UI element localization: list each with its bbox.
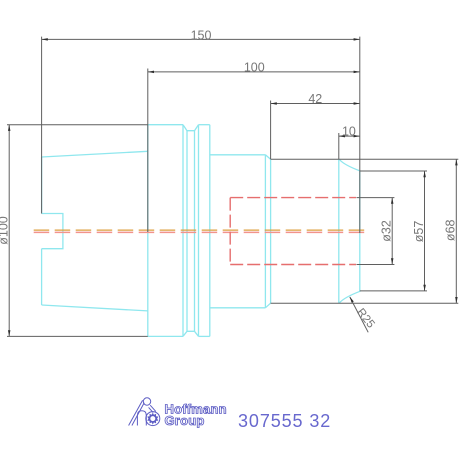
svg-text:ø100: ø100 <box>0 216 11 245</box>
svg-text:10: 10 <box>342 125 356 139</box>
svg-text:307555 32: 307555 32 <box>238 411 331 431</box>
svg-text:150: 150 <box>191 28 212 42</box>
svg-text:ø68: ø68 <box>444 219 458 241</box>
svg-text:Group: Group <box>165 413 205 428</box>
svg-text:ø57: ø57 <box>412 221 426 243</box>
svg-text:100: 100 <box>244 61 265 75</box>
svg-text:ø32: ø32 <box>380 220 394 242</box>
svg-text:42: 42 <box>308 92 322 106</box>
